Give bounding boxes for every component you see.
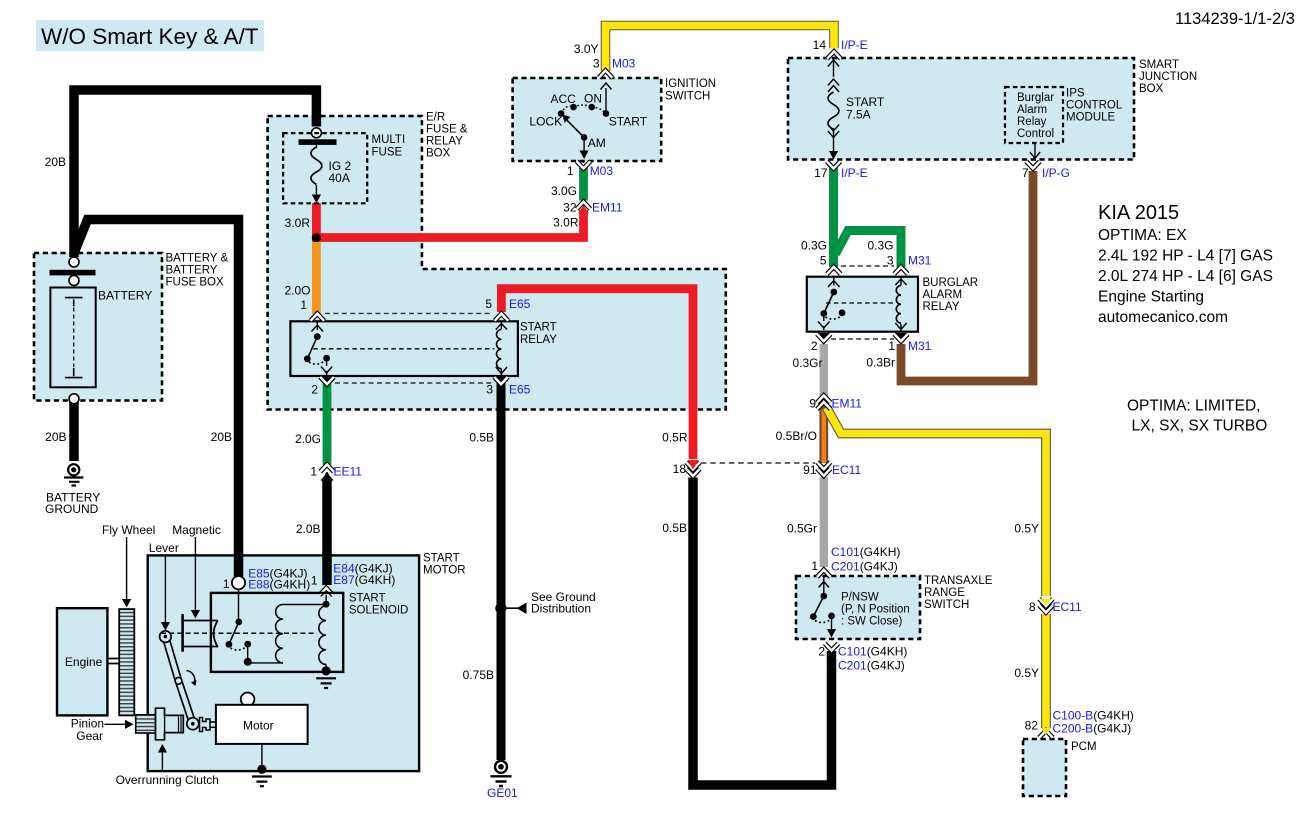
svg-text:Control: Control (1017, 128, 1054, 140)
svg-text:0.3Br: 0.3Br (866, 356, 895, 370)
dashed link connector2-connector3 of start relay (335, 382, 492, 384)
svg-text:BOX: BOX (426, 148, 451, 160)
ground GE01 (491, 761, 512, 786)
wire 0.5Y EC11 8 to PCM 82 (outline) (1041, 614, 1051, 728)
svg-text:OPTIMA: EX: OPTIMA: EX (1098, 227, 1187, 244)
dashed axis line (161, 632, 317, 634)
OPTIMA LIMITED text block (1127, 398, 1267, 435)
svg-text:32: 32 (563, 201, 577, 215)
svg-text:5: 5 (820, 254, 827, 268)
svg-text:TRANSAXLE: TRANSAXLE (924, 575, 993, 587)
svg-text:FUSE &: FUSE & (426, 124, 468, 136)
svg-text:FUSE: FUSE (372, 147, 403, 159)
svg-text:Alarm: Alarm (1017, 104, 1047, 116)
svg-text:0.3G: 0.3G (867, 239, 893, 253)
wire 20B battery to multifuse (74, 90, 316, 257)
connector 9 EM11 (817, 396, 831, 410)
label Overrunning Clutch with arrow (116, 744, 219, 787)
svg-text:3.0R: 3.0R (285, 216, 311, 230)
fuse START 7.5A (828, 59, 839, 160)
label Lever with arrow (149, 541, 179, 631)
svg-text:SWITCH: SWITCH (665, 91, 710, 103)
svg-text:BATTERY &: BATTERY & (166, 253, 229, 265)
svg-text:M03: M03 (612, 57, 636, 71)
svg-text:RELAY: RELAY (520, 334, 557, 346)
svg-text:EM11: EM11 (592, 201, 623, 215)
TEXT-LAYER (45, 38, 1134, 800)
BATTERY & BATTERY FUSE BOX (34, 253, 228, 401)
PCM box (1023, 739, 1097, 796)
relay START RELAY (290, 321, 518, 376)
COMPONENTS-LAYER (50, 52, 1064, 787)
solenoid START SOLENOID box (211, 593, 343, 672)
SMART JUNCTION BOX (788, 58, 1197, 160)
connector 14 I/P-E (827, 52, 841, 59)
svg-text:ALARM: ALARM (923, 289, 963, 301)
svg-text:3: 3 (887, 254, 894, 268)
wire 20B battery to battery ground (69, 402, 79, 461)
connector 17 I/P-E (827, 161, 841, 168)
connector 18 (686, 460, 700, 476)
svg-text:Magnetic: Magnetic (172, 523, 221, 537)
wire 3.0R multifuse to EM11 (316, 203, 583, 238)
svg-text:0.5Gr: 0.5Gr (787, 522, 817, 536)
svg-text:0.3Gr: 0.3Gr (792, 356, 822, 370)
lever arm (160, 631, 199, 730)
solenoid hold-in coil (319, 595, 330, 670)
svg-text:EC11: EC11 (832, 463, 861, 477)
switch TRANSAXLE P/NSW contacts (810, 576, 836, 638)
svg-text:1: 1 (811, 559, 818, 573)
svg-text:MULTI: MULTI (372, 134, 406, 146)
svg-text:5: 5 (485, 297, 492, 311)
svg-text:Burglar: Burglar (1017, 92, 1054, 104)
svg-text:0.5Y: 0.5Y (1014, 666, 1039, 680)
START MOTOR box (148, 553, 466, 772)
svg-text:Relay: Relay (1017, 116, 1047, 128)
svg-text:START: START (423, 553, 460, 565)
svg-text:C200-B(G4KJ): C200-B(G4KJ) (1053, 722, 1132, 736)
svg-text:0.3G: 0.3G (801, 239, 827, 253)
svg-text:START: START (520, 322, 557, 334)
svg-text:7.5A: 7.5A (846, 108, 871, 122)
svg-text:SOLENOID: SOLENOID (349, 605, 408, 617)
wire 0.5Gr EC11 91 to transaxle switch pin 1 (820, 477, 828, 567)
motor connector circle (241, 693, 255, 707)
svg-text:MOTOR: MOTOR (423, 565, 466, 577)
svg-text:0.75B: 0.75B (463, 668, 494, 682)
clutch output shaft pieces (200, 718, 216, 732)
dashed link burglar relay pins 2-1 (831, 338, 894, 340)
svg-text:Motor: Motor (243, 719, 274, 733)
svg-text:2.4L 192 HP - L4 [7] GAS: 2.4L 192 HP - L4 [7] GAS (1098, 248, 1273, 265)
svg-text:1: 1 (311, 574, 318, 588)
ground solenoid (316, 666, 336, 688)
svg-text:3.0R: 3.0R (553, 216, 579, 230)
svg-text:W/O Smart Key & A/T: W/O Smart Key & A/T (41, 24, 259, 49)
svg-text:18: 18 (673, 462, 687, 476)
svg-text:(P, N Position: (P, N Position (841, 604, 910, 616)
svg-text:20B: 20B (45, 430, 66, 444)
svg-text:1: 1 (888, 339, 895, 353)
svg-text:I/P-E: I/P-E (841, 166, 868, 180)
svg-text:JUNCTION: JUNCTION (1139, 71, 1197, 83)
pinion gear (136, 715, 156, 733)
svg-text:2.0G: 2.0G (295, 432, 321, 446)
rotation arrow on lever (187, 671, 197, 687)
wire 0.5Y tap to PCM column (outline) (827, 408, 1047, 597)
connector 1 M03 ignition bottom (577, 161, 591, 169)
svg-text:EM11: EM11 (832, 397, 863, 411)
svg-text:2.0B: 2.0B (296, 522, 321, 536)
svg-text:0.5Y: 0.5Y (1014, 522, 1039, 536)
svg-text:C201(G4KJ): C201(G4KJ) (831, 560, 898, 574)
svg-text:: SW Close): : SW Close) (841, 616, 903, 628)
wire 20B battery branch to start motor connector (75, 220, 239, 579)
label Fly Wheel with arrow (102, 523, 155, 608)
wire 3.0Y ignition switch to I/P-E 14 (outline) (606, 26, 835, 72)
svg-text:2: 2 (811, 339, 818, 353)
svg-text:3: 3 (593, 57, 600, 71)
wire 0.5B relay pin 3 to GE01 ground (497, 382, 506, 760)
svg-text:2: 2 (818, 645, 825, 659)
svg-text:M03: M03 (590, 164, 614, 178)
wire 0.3G I/P-E 17 to burglar alarm relay pin 5 (829, 168, 838, 267)
ground BATTERY GROUND (64, 464, 83, 485)
magnetic plunger symbol (183, 614, 218, 652)
svg-text:START: START (609, 115, 648, 129)
wire 0.3Br burglar relay pin 1 to I/P-G 7 (901, 171, 1033, 381)
svg-text:20B: 20B (45, 155, 66, 169)
IGNITION SWITCH box (513, 78, 717, 161)
svg-text:E65: E65 (509, 383, 531, 397)
svg-text:ACC: ACC (551, 92, 577, 106)
svg-text:E/R: E/R (426, 112, 445, 124)
svg-text:C101(G4KH): C101(G4KH) (831, 545, 900, 559)
svg-text:91: 91 (803, 463, 817, 477)
svg-text:C201(G4KJ): C201(G4KJ) (838, 659, 905, 673)
svg-text:M31: M31 (908, 254, 932, 268)
svg-text:P/NSW: P/NSW (841, 592, 879, 604)
wire 2.0G start relay pin 2 to EE11 (323, 382, 332, 465)
label Pinion Gear with arrow (71, 717, 134, 744)
wire 2.0O multifuse to start relay pin 1 (312, 242, 321, 314)
svg-text:17: 17 (814, 166, 828, 180)
wire 0.5Br/O EM11 9 to EC11 91 (819, 402, 829, 464)
svg-text:LOCK: LOCK (529, 115, 562, 129)
junction see-ground-distribution node (495, 603, 506, 614)
svg-text:2.0O: 2.0O (284, 284, 310, 298)
svg-text:GE01: GE01 (487, 786, 518, 800)
E/R FUSE & RELAY BOX (268, 112, 726, 410)
svg-text:KIA 2015: KIA 2015 (1098, 202, 1179, 224)
connector 1 C101/C201 transaxle (817, 570, 831, 577)
svg-text:20B: 20B (211, 430, 232, 444)
motor ground wire (261, 744, 263, 766)
connector 32 EM11 (577, 202, 591, 213)
svg-text:3.0G: 3.0G (551, 184, 577, 198)
svg-text:Overrunning Clutch: Overrunning Clutch (116, 773, 219, 787)
overrunning clutch housing (156, 708, 184, 740)
battery fuse bar (50, 270, 96, 276)
svg-text:BOX: BOX (1139, 83, 1164, 95)
connector 3 E65 (to 0.5B) (494, 376, 508, 385)
connector 2 start relay (to 2.0G) (320, 376, 334, 385)
connector 82 C100-B/C200-B to PCM (1039, 728, 1053, 738)
module IPS CONTROL MODULE (Burglar Alarm Relay Control) (1005, 87, 1063, 158)
flywheel gear (119, 609, 134, 715)
arrow see ground distribution (505, 603, 527, 615)
svg-text:3.0Y: 3.0Y (574, 42, 599, 56)
label Magnetic with arrow (172, 523, 221, 619)
dashed link burglar relay pins 5-3 (841, 265, 894, 267)
wire 3.0Y ignition switch to I/P-E 14 (606, 26, 835, 72)
svg-text:Engine Starting: Engine Starting (1098, 289, 1204, 306)
TRANSAXLE RANGE SWITCH box (796, 575, 993, 639)
title highlight W/O Smart Key & A/T (36, 20, 264, 51)
WIRES-LAYER (74, 26, 1046, 786)
connector 1 E85/E88 circle (232, 576, 245, 589)
svg-text:2: 2 (311, 383, 318, 397)
svg-text:82: 82 (1025, 719, 1039, 733)
connector 3 M31 (894, 267, 908, 274)
svg-text:IGNITION: IGNITION (665, 78, 716, 90)
solenoid switch contacts (226, 590, 252, 666)
svg-text:Lever: Lever (149, 541, 179, 555)
svg-text:0.5B: 0.5B (469, 431, 494, 445)
engine block Engine (57, 608, 107, 715)
svg-text:OPTIMA: LIMITED,: OPTIMA: LIMITED, (1127, 398, 1260, 415)
wire 0.5Y EC11 8 to PCM 82 (1042, 614, 1050, 728)
connector 1 EE11 (320, 465, 335, 482)
svg-text:C100-B(G4KH): C100-B(G4KH) (1053, 709, 1134, 723)
svg-text:I/P-E: I/P-E (841, 38, 868, 52)
svg-text:automecanico.com: automecanico.com (1098, 309, 1228, 326)
connector 2 C101/C201 transaxle (825, 643, 839, 650)
svg-text:START: START (349, 593, 386, 605)
relay BURGLAR ALARM RELAY (807, 277, 918, 332)
battery terminal connector circle top (69, 257, 79, 267)
battery BATTERY (50, 288, 95, 388)
battery box bottom connector circle (69, 394, 79, 404)
junction multifuse output node (312, 233, 321, 242)
svg-text:0.5B: 0.5B (662, 521, 687, 535)
svg-text:40A: 40A (329, 171, 350, 185)
svg-text:CONTROL: CONTROL (1066, 100, 1123, 112)
svg-text:Distribution: Distribution (531, 602, 591, 616)
svg-text:LX, SX, SX TURBO: LX, SX, SX TURBO (1132, 418, 1268, 435)
svg-text:SWITCH: SWITCH (924, 599, 969, 611)
svg-text:0.5R: 0.5R (662, 431, 688, 445)
svg-text:FUSE BOX: FUSE BOX (166, 277, 224, 289)
svg-text:PCM: PCM (1071, 741, 1097, 753)
dashed link connector1-connector5 of start relay (325, 312, 492, 314)
svg-text:EE11: EE11 (334, 465, 363, 479)
wire 0.5Y tap to EC11 8 (827, 408, 1047, 597)
wire 2.0B EE11 to start solenoid (322, 479, 332, 585)
KIA 2015 info text block (1098, 202, 1273, 326)
wire 0.5B connector 18 to transaxle switch pin 2 (693, 478, 832, 786)
svg-text:IPS: IPS (1066, 88, 1085, 100)
wire 3.0G ignition switch to EM11 (579, 168, 588, 201)
svg-text:0.5Br/O: 0.5Br/O (776, 429, 817, 443)
connector 3 M03 ignition top (599, 71, 613, 78)
svg-text:RELAY: RELAY (426, 136, 463, 148)
svg-text:3: 3 (486, 383, 493, 397)
connector 8 EC11 (1039, 599, 1053, 613)
MECHANICAL START MOTOR ASSEMBLY (57, 523, 343, 787)
svg-text:E88(G4KH): E88(G4KH) (248, 578, 310, 592)
connector 1 M31 (894, 333, 908, 342)
svg-text:RANGE: RANGE (924, 587, 965, 599)
svg-text:SMART: SMART (1139, 59, 1179, 71)
motor Motor box (216, 705, 308, 744)
svg-text:AM: AM (588, 136, 606, 150)
svg-text:BATTERY: BATTERY (98, 289, 152, 303)
connector 1 start relay (from 2.0O) (311, 314, 325, 321)
svg-text:1: 1 (223, 577, 230, 591)
svg-text:E65: E65 (509, 297, 531, 311)
svg-text:8: 8 (1029, 600, 1036, 614)
svg-text:Fly Wheel: Fly Wheel (102, 523, 155, 537)
connector 5 M31 (827, 267, 841, 274)
svg-text:EC11: EC11 (1053, 600, 1082, 614)
connector 91 EC11 (817, 462, 831, 476)
solenoid pull-in coil (251, 605, 326, 663)
svg-text:Engine: Engine (65, 655, 103, 669)
svg-text:1134239-1/1-2/3: 1134239-1/1-2/3 (1175, 10, 1295, 28)
svg-text:1: 1 (300, 298, 307, 312)
svg-text:BURGLAR: BURGLAR (923, 277, 979, 289)
ground motor (252, 765, 272, 787)
svg-text:14: 14 (813, 38, 827, 52)
svg-text:ON: ON (584, 92, 602, 106)
svg-text:E87(G4KH): E87(G4KH) (333, 573, 395, 587)
multifuse top connector circle (311, 128, 321, 138)
wire 0.3Gr burglar relay pin 2 to EM11 9 (820, 344, 828, 397)
svg-text:1: 1 (310, 465, 317, 479)
connector 1 E84/E87 (320, 588, 334, 595)
switch IGNITION rotary contacts (558, 83, 612, 159)
wire 0.3G branch to burglar alarm relay pin 3 (836, 231, 902, 268)
svg-text:BATTERY: BATTERY (166, 265, 218, 277)
connector 2 M31 (817, 333, 831, 342)
svg-text:GROUND: GROUND (45, 502, 99, 516)
connector 7 I/P-G (1026, 161, 1040, 168)
svg-text:7: 7 (1022, 166, 1029, 180)
connector 5 E65 (495, 314, 509, 321)
svg-text:9: 9 (809, 397, 816, 411)
svg-text:RELAY: RELAY (923, 301, 960, 313)
svg-text:2.0L 274 HP - L4 [6] GAS: 2.0L 274 HP - L4 [6] GAS (1098, 268, 1273, 285)
svg-text:MODULE: MODULE (1066, 112, 1116, 124)
dashed link connector 18 to EC11 91 (701, 462, 815, 464)
svg-text:I/P-G: I/P-G (1042, 166, 1070, 180)
battery terminal connector circle 2 (69, 276, 79, 286)
fuse MULTI FUSE IG 2 40A (283, 133, 367, 203)
wire 0.5R start relay pin 5 to connector 18 (501, 289, 693, 459)
svg-text:M31: M31 (908, 339, 932, 353)
svg-text:Gear: Gear (76, 729, 103, 743)
svg-text:1: 1 (567, 164, 574, 178)
svg-text:C101(G4KH): C101(G4KH) (838, 645, 907, 659)
engine to flywheel shaft (107, 659, 119, 664)
